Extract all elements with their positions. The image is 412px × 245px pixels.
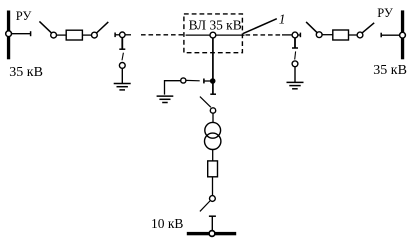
hinge circle (210, 108, 215, 113)
wire below junction (212, 81, 214, 94)
tap node circle left (120, 32, 126, 38)
hinge circle (292, 61, 298, 67)
open blade bottom switch (200, 201, 210, 211)
contact tick (210, 93, 216, 95)
wire stub (125, 34, 131, 36)
terminal tick right (380, 33, 382, 38)
node on right busbar (400, 32, 406, 38)
ground center (157, 96, 174, 102)
svg-text:ВЛ 35 кВ: ВЛ 35 кВ (189, 17, 242, 32)
node on 10 кВ busbar (209, 231, 215, 237)
fuse FU1 (208, 161, 218, 177)
hinge circle QS4 (357, 32, 363, 38)
wire down from right tap (294, 38, 296, 48)
hinge circle (181, 78, 186, 83)
contact tick left tap (114, 33, 116, 38)
open blade disconnector (200, 97, 211, 108)
circuit breaker Q1 (66, 30, 82, 40)
dashed box pole 1 (184, 14, 243, 53)
transformer T1 winding LV (205, 133, 221, 149)
wire to ground (294, 67, 296, 82)
busbar 10 кВ (187, 232, 236, 235)
dashed line ВЛ east span (246, 34, 283, 36)
wire (212, 150, 214, 161)
svg-text:35 кВ: 35 кВ (9, 65, 43, 80)
ground left (114, 84, 131, 90)
tap node circle right (292, 32, 298, 38)
wire to ground corner (165, 81, 181, 95)
contact tick (292, 47, 298, 49)
junction dot (211, 79, 215, 83)
contact tick (209, 215, 216, 217)
open blade (186, 79, 200, 81)
wire (381, 34, 399, 36)
wire (57, 34, 67, 36)
ground right (287, 82, 304, 88)
wire drop from center tap (212, 38, 214, 81)
disconnector blade QS2 (97, 22, 109, 33)
wire (298, 34, 300, 36)
wire to 10 кВ busbar (211, 216, 213, 231)
svg-text:1: 1 (279, 11, 286, 26)
tap node circle center (210, 32, 216, 38)
wire to ground (121, 68, 123, 83)
contact tick right tap (299, 33, 301, 38)
hinge circle QS1 (51, 32, 57, 38)
dashed line ВЛ west span (141, 34, 184, 36)
leader line to label 1 (243, 19, 277, 34)
contact tick (119, 48, 125, 50)
wire earthing branch (205, 80, 213, 82)
wire solid through box (186, 34, 245, 36)
svg-text:РУ: РУ (16, 9, 32, 23)
wire (82, 34, 91, 36)
disconnector blade QS4 (362, 23, 374, 33)
hinge circle QS3 (316, 32, 322, 38)
svg-text:10 кВ: 10 кВ (151, 216, 183, 231)
busbar right РУ 35 кВ (401, 10, 404, 59)
disconnector blade QS1 (39, 21, 51, 32)
circuit breaker Q2 (333, 30, 349, 40)
open blade (122, 53, 123, 61)
open blade (294, 51, 297, 59)
busbar left РУ 35 кВ (7, 11, 10, 60)
hinge circle QS2 (92, 32, 98, 38)
transformer T1 winding HV (205, 122, 221, 138)
svg-text:РУ: РУ (377, 6, 393, 20)
wire (349, 34, 358, 36)
wire (212, 177, 214, 196)
node on left busbar (6, 31, 12, 37)
wire down from left tap (121, 38, 123, 49)
disconnector blade QS3 (306, 22, 317, 33)
hinge circle (119, 63, 125, 69)
wire (282, 34, 292, 36)
terminal tick (30, 31, 32, 36)
hinge circle bottom switch (210, 196, 216, 202)
wire (12, 33, 31, 35)
wire to transformer (212, 113, 214, 122)
svg-text:35 кВ: 35 кВ (373, 63, 407, 78)
wire (322, 34, 333, 36)
wire (115, 34, 119, 36)
contact tick (203, 79, 205, 84)
